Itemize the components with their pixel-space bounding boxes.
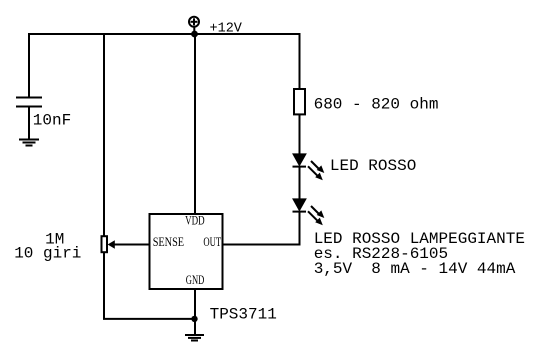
wire: resistor to LED1 [299, 114, 301, 155]
resistor R2 680-820 ohm [294, 89, 305, 114]
op-amp U1 TPS3711 box [150, 214, 223, 289]
wire: LED1 to LED2 [299, 166, 301, 200]
svg-text:SENSE: SENSE [153, 234, 184, 249]
capacitor C1 10nF [16, 98, 42, 107]
LED D1 (LED ROSSO) [293, 154, 325, 180]
wire: rail corner down to resistor [299, 33, 301, 89]
svg-text:OUT: OUT [203, 234, 221, 249]
wire: bottom horizontal to GND node [103, 318, 195, 320]
wiper arrow from SENSE to potentiometer [112, 244, 149, 246]
wire: potentiometer bottom down [103, 252, 105, 319]
wire: capacitor to ground [28, 106, 30, 140]
svg-text:680 - 820 ohm: 680 - 820 ohm [314, 96, 439, 114]
potentiometer R1 1M 10 giri [102, 236, 108, 252]
svg-text:GND: GND [186, 272, 205, 287]
wire: second branch down to potentiometer [103, 33, 105, 236]
wire: top +12V rail [28, 33, 301, 35]
node: +12V junction dot [191, 31, 198, 38]
svg-text:10 giri: 10 giri [14, 245, 81, 263]
power symbol +12V (circled plus) [189, 17, 199, 33]
ground (bottom, under IC) [185, 335, 204, 341]
ground (left, under capacitor) [19, 140, 39, 146]
svg-text:3,5V 8 mA - 14V 44mA: 3,5V 8 mA - 14V 44mA [314, 260, 516, 278]
node: GND junction dot [191, 316, 197, 322]
svg-text:VDD: VDD [185, 213, 205, 228]
wire: OUT to LED chain [224, 244, 301, 246]
wire: left branch down to capacitor [28, 33, 30, 97]
wire: VDD stub from rail to IC [194, 34, 196, 214]
wire: GND stub from IC to ground [194, 289, 196, 335]
svg-text:LED ROSSO: LED ROSSO [330, 157, 416, 175]
LED D2 (LED ROSSO LAMPEGGIANTE) [293, 199, 325, 225]
svg-text:10nF: 10nF [33, 111, 71, 129]
svg-text:TPS3711: TPS3711 [210, 306, 277, 324]
